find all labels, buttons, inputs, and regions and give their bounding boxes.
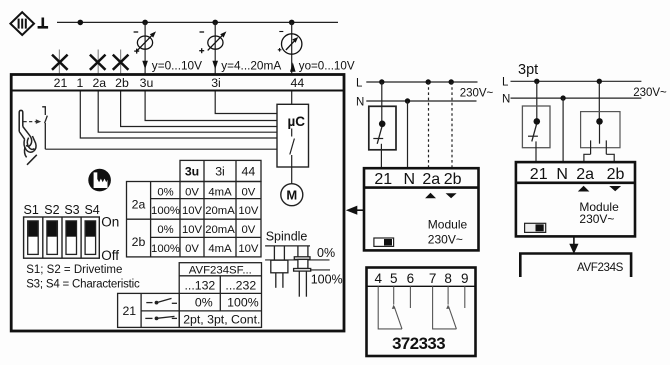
svg-text:M: M — [286, 188, 297, 203]
svg-text:AVF234SF...: AVF234SF... — [189, 265, 252, 277]
svg-text:21: 21 — [530, 166, 548, 183]
motor M — [281, 184, 303, 206]
svg-text:S3: S3 — [64, 203, 79, 217]
svg-text:100%: 100% — [311, 273, 343, 287]
wire L to switch box (right) — [536, 81, 538, 119]
svg-text:2a: 2a — [132, 197, 146, 211]
svg-text:21: 21 — [54, 76, 68, 90]
mode table 21 — [118, 293, 180, 327]
no-connect X at 2a — [90, 55, 106, 70]
module box (middle) — [364, 168, 479, 250]
junction L-contacts (right) — [597, 79, 602, 84]
ground symbol — [38, 18, 49, 28]
svg-text:100%: 100% — [227, 296, 259, 310]
junction node above 3i — [212, 20, 218, 26]
svg-text:...232: ...232 — [225, 278, 256, 292]
spindle retracted 0% — [271, 246, 288, 288]
junction L-21 — [379, 79, 384, 84]
DIP switch labels S1 S2 S3 S4 — [24, 203, 100, 217]
switch contact (right module) — [528, 118, 540, 141]
svg-text:y=0...10V: y=0...10V — [152, 59, 202, 73]
wire uC to motor — [291, 167, 293, 184]
svg-text:10V: 10V — [238, 205, 259, 217]
spindle extended 100% — [294, 246, 311, 297]
wire L line (right) — [511, 80, 642, 82]
wire N line (right) — [511, 97, 642, 99]
triangle down 2b (right) — [609, 186, 621, 191]
svg-text:0V: 0V — [185, 243, 199, 255]
spindle mount line — [265, 245, 310, 247]
svg-text:44: 44 — [242, 165, 256, 179]
dashed wire to 2a (middle) — [428, 82, 430, 168]
svg-text:0%: 0% — [157, 186, 173, 198]
svg-text:µC: µC — [288, 114, 306, 129]
svg-text:100%: 100% — [151, 243, 180, 255]
svg-text:2a: 2a — [422, 171, 440, 188]
svg-text:N: N — [556, 166, 568, 183]
wire L to contact box (right) — [598, 81, 600, 119]
svg-text:20mA: 20mA — [205, 205, 235, 217]
svg-text:21: 21 — [374, 171, 392, 188]
wire bus to meter 3i — [214, 22, 216, 74]
svg-text:0%: 0% — [317, 246, 335, 260]
module strip separator (middle) — [364, 186, 479, 189]
manual switch 21 — [42, 107, 47, 149]
DIP switch S3 slider — [66, 221, 77, 255]
DIP switch S1 slider — [28, 221, 39, 255]
wire bus to meter 44 — [291, 22, 293, 74]
svg-text:100%: 100% — [151, 205, 180, 217]
svg-text:3i: 3i — [215, 165, 225, 179]
svg-text:3i: 3i — [211, 76, 221, 90]
triangle down 2b (middle) — [446, 193, 457, 198]
svg-text:2pt, 3pt, Cont.: 2pt, 3pt, Cont. — [183, 313, 260, 327]
triangle up 2a (right) — [578, 186, 590, 192]
svg-text:0V: 0V — [241, 186, 255, 198]
svg-text:...132: ...132 — [185, 278, 216, 292]
svg-text:8: 8 — [444, 271, 452, 286]
svg-text:2b: 2b — [132, 235, 146, 249]
wire terminal 3u to uC — [145, 92, 277, 121]
svg-text:N: N — [502, 93, 510, 105]
svg-text:S1: S1 — [24, 203, 39, 217]
feedback signal arrow at 44 — [290, 62, 296, 71]
factory-default diamond icon — [10, 12, 34, 35]
slide switch icon (right) — [525, 223, 546, 232]
switch contact (middle module) — [373, 121, 385, 144]
svg-text:21: 21 — [122, 304, 136, 318]
svg-text:Off: Off — [101, 248, 119, 263]
terminal strip bottom line — [11, 90, 344, 92]
wire bus to meter 3u — [144, 22, 146, 74]
changeover contacts (right module) — [591, 118, 607, 154]
svg-text:372333: 372333 — [392, 334, 445, 353]
svg-text:N: N — [356, 96, 364, 108]
svg-text:4mA: 4mA — [208, 186, 232, 198]
svg-text:2a: 2a — [92, 76, 106, 90]
svg-text:5: 5 — [390, 271, 398, 286]
svg-text:Spindle: Spindle — [266, 229, 308, 243]
svg-text:S3; S4 = Characteristic: S3; S4 = Characteristic — [26, 279, 140, 291]
svg-text:0%: 0% — [157, 224, 173, 236]
svg-text:yo=0...10V: yo=0...10V — [299, 60, 355, 73]
top bus wire — [57, 21, 338, 23]
closed switch symbol row2 — [145, 316, 177, 320]
svg-text:3pt: 3pt — [518, 62, 538, 78]
svg-text:L: L — [356, 77, 363, 89]
junction L-2a — [426, 79, 431, 84]
DIP switch S4 slider — [85, 221, 96, 255]
wire L line (middle) — [366, 81, 477, 83]
contact box (right module) — [581, 112, 620, 148]
wire N to terminal N (right) — [562, 98, 564, 162]
wire manual switch to uC — [45, 148, 277, 150]
relay contact 7-8-9 — [433, 286, 465, 329]
svg-text:S4: S4 — [84, 203, 99, 217]
svg-text:AVF234S: AVF234S — [577, 261, 624, 274]
junction node above 3u — [142, 20, 148, 26]
manual override hand icon — [19, 110, 37, 164]
arrow module to actuator — [346, 206, 364, 215]
svg-text:0V: 0V — [241, 224, 255, 236]
svg-text:230V~: 230V~ — [460, 88, 494, 100]
AVF234S bracket — [520, 254, 631, 278]
junction L-21 (right) — [534, 79, 539, 84]
no-connect X at 21 — [52, 55, 68, 70]
switch inside uC — [290, 129, 295, 168]
relay contact 4-5-6 — [378, 286, 410, 329]
svg-text:4: 4 — [374, 271, 382, 286]
wire terminal 2b to uC — [121, 92, 277, 127]
module terminal labels (right) — [530, 166, 625, 183]
svg-text:9: 9 — [461, 271, 469, 286]
svg-text:230V~: 230V~ — [579, 212, 614, 226]
module box (right) — [516, 162, 635, 236]
terminal labels 21 1 2a 2b 3u 3i 44 — [54, 76, 305, 90]
svg-text:Module: Module — [428, 218, 468, 232]
svg-text:2b: 2b — [607, 166, 625, 183]
type table grid — [179, 263, 261, 328]
svg-text:20mA: 20mA — [205, 224, 235, 236]
svg-text:0%: 0% — [195, 296, 213, 310]
svg-text:6: 6 — [407, 271, 415, 286]
svg-text:230V~: 230V~ — [428, 233, 463, 247]
svg-text:2a: 2a — [576, 166, 594, 183]
wire terminal 44 to uC top — [291, 92, 293, 105]
DIP switch block — [24, 217, 100, 258]
dashed wire to 2b (middle) — [451, 82, 453, 168]
junction node above terminal 1 — [78, 20, 84, 26]
svg-text:S1; S2 = Drivetime: S1; S2 = Drivetime — [26, 264, 122, 276]
module terminal labels (middle) — [374, 171, 461, 188]
DIP switch S2 slider — [47, 221, 58, 255]
dashed manual arrow — [24, 119, 42, 124]
switch box (middle module) — [369, 106, 396, 150]
op-amp uC box — [277, 104, 309, 167]
svg-text:4mA: 4mA — [208, 243, 232, 255]
wire contact to 2a (right) — [584, 154, 591, 162]
svg-text:0V: 0V — [185, 186, 199, 198]
relay box separator — [367, 285, 476, 287]
svg-text:7: 7 — [429, 271, 437, 286]
type table texts — [183, 265, 260, 327]
actuator enclosure box — [11, 75, 344, 332]
stub terminal 2a — [97, 50, 99, 75]
svg-text:10V: 10V — [182, 224, 203, 236]
relay terminal numbers — [374, 271, 468, 286]
svg-text:1: 1 — [76, 76, 83, 90]
stub terminal 2b — [120, 50, 122, 75]
junction L-2b — [449, 79, 454, 84]
svg-text:N: N — [404, 171, 416, 188]
module strip separator (right) — [516, 182, 635, 185]
arrow module to AVF234S — [569, 236, 578, 254]
open switch symbol row1 — [146, 298, 177, 304]
svg-text:10V: 10V — [238, 243, 259, 255]
svg-text:S2: S2 — [44, 203, 59, 217]
svg-text:y=4...20mA: y=4...20mA — [221, 59, 281, 73]
svg-text:3u: 3u — [140, 76, 154, 90]
svg-text:On: On — [101, 215, 119, 230]
junction N (right) — [560, 95, 565, 100]
relay box 372333 — [367, 268, 476, 357]
wire switch to terminal 21 (middle) — [380, 144, 382, 168]
svg-text:230V~: 230V~ — [633, 87, 667, 99]
signal arrow at 3i — [212, 61, 218, 69]
factory setting icon — [88, 169, 111, 192]
0% reference line — [265, 259, 329, 261]
no-connect X at 2b — [113, 55, 129, 70]
signal table values — [151, 186, 259, 255]
output meter at 44 — [278, 32, 302, 55]
svg-text:10V: 10V — [182, 205, 203, 217]
ammeter at 3i — [199, 31, 226, 53]
wire terminal 2a to uC — [98, 92, 277, 133]
wire contact to 2b (right) — [606, 154, 614, 162]
switch box (right module) — [522, 106, 550, 148]
wire terminal 3i to uC — [215, 92, 277, 114]
voltmeter at 3u — [134, 31, 156, 53]
wire L to switch box (middle) — [381, 82, 383, 121]
junction N — [405, 98, 410, 103]
svg-text:3u: 3u — [185, 165, 199, 179]
triangle up 2a (middle) — [425, 193, 436, 199]
svg-text:2b: 2b — [444, 171, 462, 188]
svg-text:L: L — [502, 77, 509, 89]
slide switch icon (middle) — [374, 238, 394, 246]
svg-text:44: 44 — [291, 76, 305, 90]
wire N line (middle) — [366, 100, 476, 102]
stub terminal 21 — [58, 50, 60, 75]
100% reference line — [311, 269, 330, 271]
signal table grid — [127, 160, 262, 257]
signal table header text — [185, 165, 256, 179]
wire N to terminal N (middle) — [407, 101, 409, 168]
signal arrow at 3u — [142, 61, 148, 69]
wire switch to terminal 21 (right) — [535, 141, 537, 162]
wire terminal 1 to uC — [80, 92, 277, 139]
signal table row labels — [132, 197, 146, 249]
svg-text:2b: 2b — [115, 76, 129, 90]
junction node above 44 — [289, 20, 295, 26]
